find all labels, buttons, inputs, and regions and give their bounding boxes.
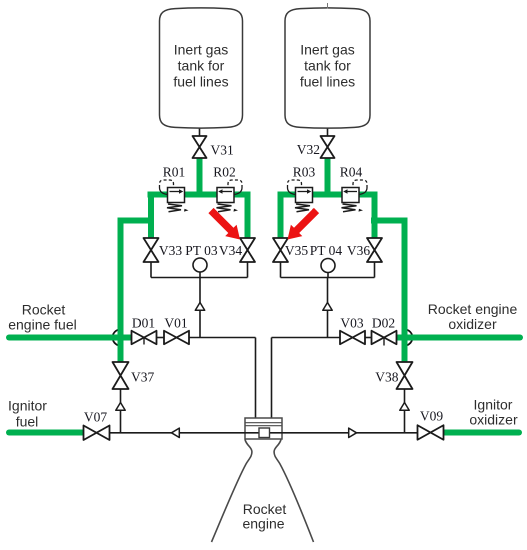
wire: green leg to V36 bbox=[372, 192, 378, 239]
wire: right engine feed line bbox=[271, 338, 273, 419]
svg-text:Rocket: Rocket bbox=[22, 302, 66, 318]
svg-text:Rocket engine: Rocket engine bbox=[428, 301, 518, 317]
svg-text:tank for: tank for bbox=[304, 58, 351, 74]
tank T1 inert gas bbox=[160, 8, 243, 128]
wire: green rocket engine fuel line bbox=[9, 335, 132, 341]
wire: V34 to lower manifold bbox=[247, 262, 249, 278]
pressure transducer PT03 circle bbox=[193, 258, 207, 272]
wire: green leg to V35 bbox=[278, 192, 284, 239]
rocket engine chamber box bbox=[245, 418, 282, 439]
wire: green rocket engine oxidizer line bbox=[396, 335, 520, 341]
svg-text:engine fuel: engine fuel bbox=[8, 317, 77, 333]
svg-text:Ignitor: Ignitor bbox=[8, 398, 47, 414]
wire: ignitor cross line through engine bbox=[110, 432, 418, 434]
wire: V03 to D02 connector bbox=[365, 337, 372, 339]
check arrow up right center bbox=[323, 303, 332, 311]
svg-text:PT 03: PT 03 bbox=[185, 243, 218, 258]
svg-text:fuel: fuel bbox=[16, 414, 39, 430]
tank T2 top tick bbox=[327, 3, 329, 9]
check arrow up left center bbox=[195, 303, 204, 311]
svg-text:V03: V03 bbox=[340, 316, 363, 331]
regulator R03 bbox=[288, 180, 317, 212]
svg-text:R01: R01 bbox=[163, 165, 186, 180]
wire: PT04 stem bbox=[327, 272, 329, 278]
svg-text:R02: R02 bbox=[213, 165, 236, 180]
check arrow left on ignitor fuel line bbox=[172, 428, 180, 437]
regulator R02 bbox=[217, 180, 243, 212]
svg-text:fuel lines: fuel lines bbox=[300, 74, 355, 90]
wire: green vertical below V31 bbox=[197, 156, 203, 195]
svg-text:engine: engine bbox=[242, 516, 284, 532]
svg-text:V01: V01 bbox=[164, 316, 187, 331]
svg-text:Inert gas: Inert gas bbox=[174, 42, 228, 58]
svg-text:V37: V37 bbox=[131, 370, 154, 385]
check arrow right on ignitor oxidizer line bbox=[349, 428, 357, 437]
wire: green vertical below V32 bbox=[325, 156, 331, 195]
tank T2 inert gas bbox=[285, 8, 370, 128]
wire: tank2 outlet stem bbox=[327, 127, 329, 138]
wire: PT03 stem bbox=[199, 272, 201, 278]
injector band lines bbox=[245, 423, 282, 426]
svg-text:V35: V35 bbox=[285, 243, 308, 258]
svg-text:PT 04: PT 04 bbox=[310, 243, 343, 258]
valve V01 bbox=[164, 331, 189, 345]
valve V31 bbox=[193, 136, 207, 158]
engine nozzle bell bbox=[212, 440, 314, 543]
svg-text:Inert gas: Inert gas bbox=[300, 42, 354, 58]
wire: green vertical down to oxidizer junction and V38 bbox=[402, 218, 408, 363]
wire: left center line down bbox=[199, 278, 201, 338]
wire: right feed corner to V03 bbox=[272, 337, 341, 339]
wire: green ignitor oxidizer line bbox=[444, 430, 520, 436]
valve D01 bbox=[132, 331, 157, 345]
valve V07 bbox=[84, 426, 110, 441]
red arrow pointing at V35 bbox=[288, 208, 320, 240]
valve V09 bbox=[418, 425, 444, 440]
regulator R04 bbox=[342, 180, 368, 212]
svg-text:V34: V34 bbox=[219, 243, 242, 258]
check arrow up below V38 bbox=[400, 403, 409, 411]
valve V35 bbox=[273, 238, 288, 262]
valve V37 bbox=[113, 362, 129, 389]
wire: green manifold right module bbox=[278, 192, 378, 198]
wire: green tee stub left module bbox=[118, 218, 155, 224]
svg-text:oxidizer: oxidizer bbox=[469, 412, 518, 428]
svg-text:V32: V32 bbox=[297, 142, 320, 157]
wire: lower manifold right module bbox=[281, 277, 375, 279]
wire: V33 to lower manifold bbox=[150, 262, 152, 278]
wire: V36 to lower manifold bbox=[374, 262, 376, 278]
valve D02 stem bbox=[383, 338, 385, 346]
svg-text:V36: V36 bbox=[347, 243, 370, 258]
wire: tank1 outlet stem bbox=[199, 127, 201, 138]
wire: green tee stub right module bbox=[371, 218, 408, 224]
svg-text:V07: V07 bbox=[84, 410, 107, 425]
valve V38 bbox=[397, 362, 413, 389]
junction arc left (fuel line crossing) bbox=[113, 329, 123, 345]
wire: below V37 bbox=[120, 389, 122, 433]
valve D02 bbox=[372, 331, 397, 345]
valve V33 bbox=[144, 238, 159, 262]
svg-text:V09: V09 bbox=[420, 409, 443, 424]
wire: green manifold left module bbox=[148, 192, 251, 198]
wire: below V38 bbox=[404, 389, 406, 433]
svg-text:fuel lines: fuel lines bbox=[173, 74, 228, 90]
wire: right center line down bbox=[327, 278, 329, 338]
wire: lower manifold left module bbox=[151, 277, 248, 279]
wire: green leg to V33 bbox=[148, 192, 154, 239]
valve V03 bbox=[340, 331, 365, 345]
svg-text:D01: D01 bbox=[132, 316, 155, 331]
svg-text:V31: V31 bbox=[211, 143, 234, 158]
valve D01 stem bbox=[143, 338, 145, 345]
ignitor square in chamber bbox=[259, 428, 270, 438]
regulator R01 bbox=[160, 180, 189, 212]
svg-text:V33: V33 bbox=[159, 243, 182, 258]
svg-text:R03: R03 bbox=[293, 165, 316, 180]
svg-text:tank for: tank for bbox=[178, 58, 225, 74]
check arrow up below V37 bbox=[116, 403, 125, 411]
svg-text:D02: D02 bbox=[372, 316, 395, 331]
svg-text:oxidizer: oxidizer bbox=[448, 316, 497, 332]
valve V34 bbox=[240, 238, 255, 262]
valve V36 bbox=[367, 238, 382, 262]
wire: V35 to lower manifold bbox=[280, 262, 282, 278]
valve V32 bbox=[321, 136, 335, 158]
wire: green ignitor fuel line bbox=[9, 430, 84, 436]
wire: green vertical down to fuel junction and V37 bbox=[118, 218, 124, 363]
wire: green leg to V34 bbox=[245, 192, 251, 239]
wire: D01 to V01 connector bbox=[157, 337, 165, 339]
svg-text:R04: R04 bbox=[340, 165, 363, 180]
svg-text:V38: V38 bbox=[375, 370, 398, 385]
wire: V01 to left feed corner bbox=[189, 337, 256, 339]
wire: left engine feed line bbox=[255, 338, 257, 419]
red arrow pointing at V34 bbox=[208, 208, 240, 240]
junction arc right (oxidizer line crossing) bbox=[402, 329, 412, 345]
svg-text:Ignitor: Ignitor bbox=[474, 397, 513, 413]
pressure transducer PT04 circle bbox=[321, 259, 335, 273]
